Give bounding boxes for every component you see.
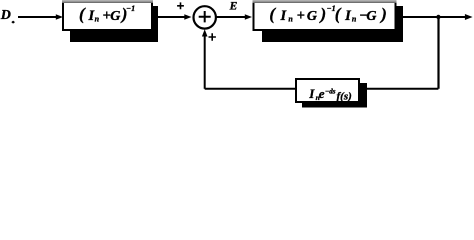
junction node on output wire [436,15,440,19]
wire: input to block U1 [18,14,63,20]
shadow of block U2 [262,6,403,42]
svg-text:−ds: −ds [325,88,336,96]
plus sign (left input of summer) [177,2,184,9]
input label D* [0,8,15,23]
block U2 [253,2,397,31]
label In e^-ds f(s) of block U3 [308,86,352,103]
svg-text:n: n [352,15,357,24]
wire: junction down to feedback row [437,17,439,89]
plus sign (bottom input of summer) [209,33,216,40]
plus sign inside summer [199,11,211,22]
summing junction [194,6,216,28]
label (In+G)^-1 of block U1 [79,4,135,24]
svg-text:): ) [319,5,327,24]
svg-text:+: + [297,8,305,24]
svg-text:−1: −1 [126,4,135,13]
svg-text:n: n [95,15,100,24]
svg-text:G: G [366,9,376,24]
svg-text:E: E [229,1,238,13]
wire: block U1 to summer [152,14,192,20]
shadow of block U1 [70,6,158,42]
block U3 [296,79,359,102]
wire: feedback up into summer [202,29,208,89]
svg-text:f(s): f(s) [337,90,352,102]
label (In+G)^-1(In-G) of block U2 [269,4,386,24]
wire: summer to block U2 [217,14,253,20]
svg-text:e: e [319,86,325,101]
wire: block U2 to output [396,14,473,20]
shadow of block U3 [302,83,367,108]
svg-text:G: G [307,9,317,24]
block U1 [62,2,153,31]
svg-text:n: n [288,15,293,24]
svg-text:I: I [308,86,315,101]
svg-text:G: G [110,9,120,24]
feedback wire: right to left [205,88,439,90]
svg-text:): ) [379,5,387,24]
svg-text:D: D [0,8,11,23]
